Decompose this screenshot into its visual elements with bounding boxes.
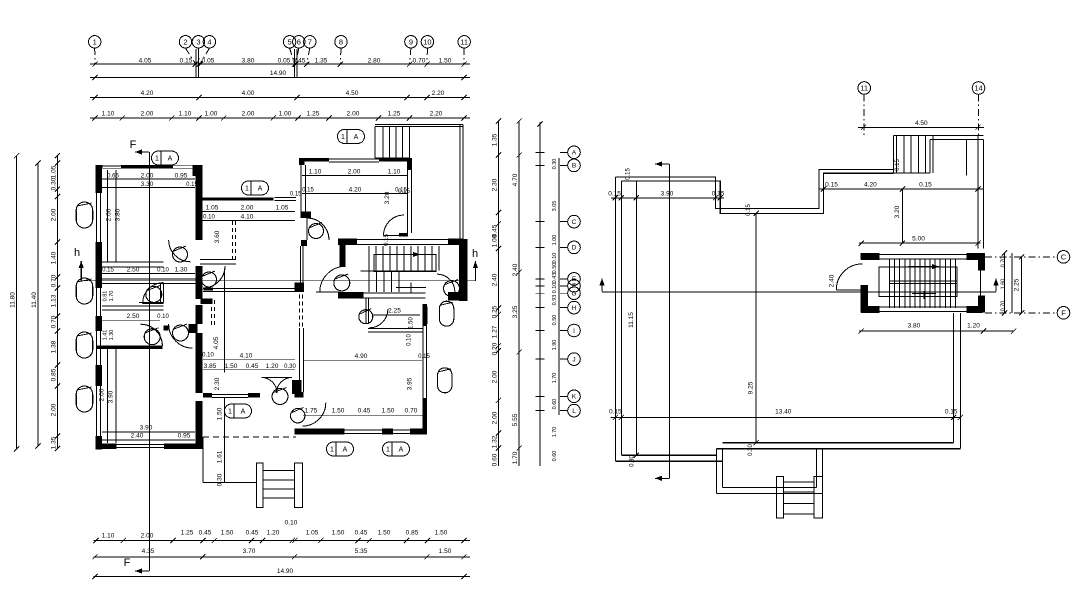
svg-text:14: 14 xyxy=(974,84,982,93)
svg-text:1.00: 1.00 xyxy=(279,111,292,118)
main stair cross mark xyxy=(396,287,426,289)
svg-text:4.05: 4.05 xyxy=(213,336,220,349)
window hatch in west wing top wall xyxy=(103,166,122,169)
roof bottom left edge xyxy=(615,460,722,462)
svg-text:2.00: 2.00 xyxy=(348,169,361,176)
svg-text:2.30: 2.30 xyxy=(491,178,498,191)
svg-text:0.15: 0.15 xyxy=(945,409,958,416)
svg-text:0.15: 0.15 xyxy=(608,190,621,197)
terrace edge right of stair xyxy=(1011,253,1013,313)
svg-text:0.45: 0.45 xyxy=(293,58,306,65)
svg-text:F: F xyxy=(130,139,137,151)
svg-text:0.93: 0.93 xyxy=(552,295,558,306)
left vertical detailed dim line xyxy=(56,156,58,449)
svg-text:0.10: 0.10 xyxy=(157,268,169,274)
svg-text:1.50: 1.50 xyxy=(382,408,395,415)
svg-text:1.25: 1.25 xyxy=(388,111,401,118)
svg-text:0.15: 0.15 xyxy=(302,188,314,194)
entry door arc xyxy=(302,403,326,427)
svg-text:3.80: 3.80 xyxy=(115,208,122,221)
svg-text:3.25: 3.25 xyxy=(512,305,519,318)
svg-text:0.30: 0.30 xyxy=(50,177,57,190)
stairwell top wall xyxy=(338,239,357,246)
east room east wall xyxy=(407,158,412,170)
svg-text:0.05: 0.05 xyxy=(278,58,291,65)
hall east wall black piece xyxy=(294,283,304,292)
svg-text:J: J xyxy=(572,356,575,363)
stair enclosure bottom wall xyxy=(861,306,879,313)
east room top wall xyxy=(299,158,329,162)
stadium tag bottom 2 xyxy=(383,442,410,456)
svg-text:0.30: 0.30 xyxy=(630,455,636,467)
bottom dimension row 3 (14.90) xyxy=(94,575,471,577)
svg-text:0.50: 0.50 xyxy=(552,263,558,274)
door arc bath1 xyxy=(143,283,164,304)
svg-text:2.00: 2.00 xyxy=(347,111,360,118)
svg-text:1.13: 1.13 xyxy=(50,294,57,307)
svg-text:1.70: 1.70 xyxy=(109,291,115,302)
stadium tag east room top xyxy=(338,130,365,144)
svg-text:3.90: 3.90 xyxy=(661,190,674,197)
west wing interior wall B corridor bottom xyxy=(102,278,196,280)
axis bubble C right xyxy=(985,256,1056,258)
west wing bottom bedroom top wall xyxy=(97,345,163,349)
west wing bottom wall xyxy=(95,444,116,450)
roof outline inner xyxy=(621,173,893,213)
axis bubble 7 xyxy=(304,36,316,48)
svg-text:A: A xyxy=(258,186,263,193)
dim 9.25 vertical xyxy=(755,213,757,442)
door arc west bedroom xyxy=(169,240,191,262)
svg-text:4.50: 4.50 xyxy=(915,120,928,127)
svg-text:1.50: 1.50 xyxy=(439,58,452,65)
svg-text:1.27: 1.27 xyxy=(491,325,498,338)
row axis dim line right plan xyxy=(539,122,541,466)
svg-text:4.20: 4.20 xyxy=(141,90,154,97)
svg-text:2.00: 2.00 xyxy=(141,111,154,118)
svg-text:0.15: 0.15 xyxy=(418,354,430,360)
axis double lines 2-3 xyxy=(195,49,197,78)
svg-text:1.00: 1.00 xyxy=(205,111,218,118)
svg-text:0.10: 0.10 xyxy=(552,253,558,264)
svg-text:h: h xyxy=(472,248,478,260)
svg-text:1: 1 xyxy=(93,38,97,47)
svg-text:2.40: 2.40 xyxy=(491,273,498,286)
svg-text:C: C xyxy=(1061,253,1067,262)
pill fixture right 1 xyxy=(439,301,453,326)
roof left wall xyxy=(614,177,616,461)
svg-text:0.45: 0.45 xyxy=(199,530,212,537)
svg-text:1.10: 1.10 xyxy=(102,111,115,118)
svg-text:1.60: 1.60 xyxy=(1001,279,1007,290)
section line F right plan xyxy=(669,164,671,478)
svg-text:2.40: 2.40 xyxy=(131,433,144,440)
svg-text:1.75: 1.75 xyxy=(305,408,318,415)
svg-text:2.20: 2.20 xyxy=(430,111,443,118)
svg-text:4.20: 4.20 xyxy=(864,182,877,189)
hall partition double line xyxy=(203,288,298,290)
svg-text:2.00: 2.00 xyxy=(50,403,57,416)
svg-text:11: 11 xyxy=(860,84,868,93)
svg-text:4.90: 4.90 xyxy=(355,353,368,360)
svg-text:0.15: 0.15 xyxy=(102,268,114,274)
top dimension row 1 (4.05 0.15 0.05 3.80 0.05 0.45 1.35 2.80 0.70 1.50) xyxy=(90,63,470,65)
stairwell left wall black piece xyxy=(339,245,345,267)
entry steps right rail xyxy=(294,463,302,508)
svg-text:1.05: 1.05 xyxy=(206,205,219,212)
svg-text:1.50: 1.50 xyxy=(221,530,234,537)
axis bubble 5 xyxy=(283,36,295,48)
svg-text:1.70: 1.70 xyxy=(512,451,519,464)
svg-text:1.50: 1.50 xyxy=(332,408,345,415)
svg-text:0.30: 0.30 xyxy=(217,473,224,486)
door arc stair-terrace xyxy=(437,274,455,292)
interior stair cross mark xyxy=(912,293,936,295)
east room bottom wall xyxy=(294,429,344,435)
svg-text:2.25: 2.25 xyxy=(388,308,401,315)
interior stair landing divider xyxy=(890,280,957,282)
svg-text:1.50: 1.50 xyxy=(217,407,224,420)
svg-text:0.70: 0.70 xyxy=(50,315,57,328)
svg-text:0.25: 0.25 xyxy=(491,305,498,318)
svg-text:1: 1 xyxy=(386,447,390,454)
svg-text:0.15: 0.15 xyxy=(609,409,622,416)
svg-text:F: F xyxy=(124,557,131,569)
right plan axis bubble 14 xyxy=(972,82,985,95)
left vertical dim line 11.40 xyxy=(37,163,39,446)
svg-text:3.90: 3.90 xyxy=(140,425,153,432)
svg-text:2.40: 2.40 xyxy=(512,263,519,276)
svg-text:0.10: 0.10 xyxy=(285,520,298,527)
hall wall stub right of stair door xyxy=(316,291,340,293)
wc room below stair xyxy=(359,310,373,324)
windows in west wing left wall xyxy=(96,193,98,242)
pill fixture left 4 xyxy=(76,386,93,412)
left vertical dim line 11.80 xyxy=(16,156,18,449)
interior stair treads xyxy=(889,259,891,308)
svg-text:5: 5 xyxy=(288,38,292,47)
svg-text:1.35: 1.35 xyxy=(491,133,498,146)
svg-text:0.30: 0.30 xyxy=(284,364,296,370)
svg-text:3.95: 3.95 xyxy=(407,377,414,390)
svg-text:3.30: 3.30 xyxy=(141,181,154,188)
top dimension row 3 (4.20 4.00 4.50 2.20) xyxy=(90,96,470,98)
dim 13.40 xyxy=(611,416,961,418)
svg-text:1.38: 1.38 xyxy=(50,340,57,353)
porch entry stair rails xyxy=(776,476,783,518)
wc fixture west bedroom xyxy=(173,247,188,262)
window center room top xyxy=(274,196,296,198)
bath1 walls xyxy=(139,301,164,303)
svg-text:2.80: 2.80 xyxy=(368,58,381,65)
stair landing inner line xyxy=(966,140,968,176)
svg-text:1.10: 1.10 xyxy=(102,533,115,540)
center column wall stub xyxy=(201,299,213,305)
svg-text:A: A xyxy=(572,150,577,157)
pill fixture right 2 xyxy=(438,368,452,393)
roof right wall xyxy=(959,313,961,449)
axis bubble 11 xyxy=(458,36,470,48)
svg-text:G: G xyxy=(571,291,576,298)
svg-text:0.10: 0.10 xyxy=(203,215,215,221)
svg-text:1.05: 1.05 xyxy=(306,530,319,537)
main stair upper boundary xyxy=(361,270,436,272)
svg-text:0.50: 0.50 xyxy=(552,315,558,326)
svg-text:0.15: 0.15 xyxy=(180,58,193,65)
interior stair arrow xyxy=(908,266,939,268)
exterior stair right plan outline xyxy=(893,135,983,137)
svg-text:4.35: 4.35 xyxy=(142,548,155,555)
terrace right edge xyxy=(459,124,461,239)
wc fixture hall-stairwell xyxy=(334,275,350,291)
svg-text:1.50: 1.50 xyxy=(439,548,452,555)
wc fixture stair-terrace xyxy=(444,281,460,297)
svg-text:2.30: 2.30 xyxy=(214,377,221,390)
svg-text:5.35: 5.35 xyxy=(355,548,368,555)
wc fixture entry xyxy=(291,409,305,423)
hall vertical dim 4.05 xyxy=(224,272,226,373)
door arc small room xyxy=(369,309,388,328)
svg-text:A: A xyxy=(399,447,404,454)
bottom bedroom dim texts xyxy=(107,349,109,443)
svg-text:3.90: 3.90 xyxy=(108,390,115,403)
small room 2.25 walls xyxy=(365,299,367,325)
svg-text:B: B xyxy=(572,163,576,170)
svg-text:4: 4 xyxy=(207,38,211,47)
svg-text:10: 10 xyxy=(423,38,431,47)
svg-text:1.30: 1.30 xyxy=(109,330,115,341)
svg-text:h: h xyxy=(74,247,80,259)
stair enclosure door arc xyxy=(836,264,862,290)
axis bubble 10 xyxy=(421,36,433,48)
window in west wing bottom wall xyxy=(116,444,164,446)
svg-text:1.10: 1.10 xyxy=(388,169,401,176)
svg-text:3.85: 3.85 xyxy=(204,363,217,370)
door arc hall-stairwell xyxy=(320,266,346,292)
svg-text:2.00: 2.00 xyxy=(106,208,113,221)
svg-text:1.30: 1.30 xyxy=(175,267,188,274)
svg-text:13.40: 13.40 xyxy=(775,409,792,416)
wc fixture hall door xyxy=(272,389,288,405)
svg-text:1.05: 1.05 xyxy=(50,165,57,178)
svg-text:1.50: 1.50 xyxy=(332,530,345,537)
svg-text:0.30: 0.30 xyxy=(552,159,558,170)
svg-text:1.50: 1.50 xyxy=(378,530,391,537)
wc fixture bath2 right xyxy=(173,325,189,341)
svg-text:H: H xyxy=(572,305,577,312)
stadium tag bottom 1 xyxy=(327,442,354,456)
svg-text:3.20: 3.20 xyxy=(384,191,391,204)
window hall bottom wall xyxy=(212,393,248,395)
wall stubs next to bath2 xyxy=(164,326,169,331)
svg-text:1.50: 1.50 xyxy=(225,363,238,370)
svg-text:A: A xyxy=(354,134,359,141)
svg-text:3.60: 3.60 xyxy=(214,230,221,243)
svg-text:1: 1 xyxy=(228,409,232,416)
svg-text:I: I xyxy=(573,328,575,335)
svg-text:F: F xyxy=(1061,309,1066,318)
svg-text:8: 8 xyxy=(339,38,343,47)
svg-text:0.10: 0.10 xyxy=(552,283,558,294)
svg-text:1.10: 1.10 xyxy=(309,169,322,176)
axis bubble F right xyxy=(985,312,1056,314)
svg-text:11.80: 11.80 xyxy=(10,292,17,308)
dim row 3.90 xyxy=(611,197,724,199)
axis bubble 3 xyxy=(192,36,204,48)
svg-text:0.45: 0.45 xyxy=(355,530,368,537)
wc fixture hall west xyxy=(202,272,217,287)
stairwell bottom wall xyxy=(338,292,363,299)
dim 4.50 xyxy=(858,126,984,128)
door arc hall west xyxy=(203,266,225,288)
svg-text:0.70: 0.70 xyxy=(1001,301,1007,312)
svg-text:2.00: 2.00 xyxy=(141,173,154,180)
stair enclosure right wall xyxy=(978,253,985,270)
roof bottom right edge xyxy=(717,448,961,450)
svg-text:0.70: 0.70 xyxy=(413,58,426,65)
east big room left wall xyxy=(299,328,301,392)
svg-text:5.00: 5.00 xyxy=(912,236,925,243)
section line h right plan xyxy=(602,291,996,293)
roof bottom step xyxy=(716,449,718,456)
svg-text:14.90: 14.90 xyxy=(277,568,294,575)
svg-text:5.55: 5.55 xyxy=(512,413,519,426)
main stair lower flight treads xyxy=(368,271,370,292)
small room bottom wall xyxy=(368,328,424,330)
svg-text:3.05: 3.05 xyxy=(552,201,558,212)
west wing east wall xyxy=(196,165,203,240)
svg-text:1.25: 1.25 xyxy=(181,530,194,537)
svg-text:0.81: 0.81 xyxy=(103,291,109,302)
window in west wing top wall xyxy=(173,165,192,168)
svg-text:1.20: 1.20 xyxy=(266,363,279,370)
roof outline outer xyxy=(615,169,893,208)
svg-text:1: 1 xyxy=(245,186,249,193)
svg-text:11.15: 11.15 xyxy=(628,312,635,328)
svg-text:0.70: 0.70 xyxy=(405,408,418,415)
axis bubble 9 xyxy=(405,36,417,48)
svg-text:0.15: 0.15 xyxy=(895,159,901,171)
svg-text:A: A xyxy=(343,447,348,454)
svg-text:0.95: 0.95 xyxy=(175,173,188,180)
dim 3.20 vertical xyxy=(901,189,903,243)
svg-text:D: D xyxy=(572,245,577,252)
svg-text:2.40: 2.40 xyxy=(829,274,836,287)
svg-text:0.85: 0.85 xyxy=(50,368,57,381)
west wing interior wall A corridor top xyxy=(102,261,164,263)
svg-text:0.95: 0.95 xyxy=(178,433,191,440)
svg-text:1.00: 1.00 xyxy=(552,235,558,246)
wc fixture center-east door xyxy=(309,224,324,239)
center room top wall xyxy=(196,197,274,200)
stair enclosure left wall xyxy=(860,253,868,260)
svg-text:4.70: 4.70 xyxy=(512,173,519,186)
svg-text:2.00: 2.00 xyxy=(141,533,154,540)
svg-text:1.90: 1.90 xyxy=(552,340,558,351)
section line F vertical xyxy=(148,152,150,571)
svg-text:2.50: 2.50 xyxy=(127,267,140,274)
svg-text:1.40: 1.40 xyxy=(50,251,57,264)
dim line 0.70-1.60-0.70 vertical xyxy=(1004,253,1006,313)
svg-text:0.20: 0.20 xyxy=(491,342,498,355)
hall east wall stub xyxy=(292,380,302,394)
svg-text:L: L xyxy=(572,408,576,415)
axis bubble 8 xyxy=(335,36,347,48)
svg-text:7: 7 xyxy=(308,38,312,47)
svg-text:0.15: 0.15 xyxy=(712,190,725,197)
wc fixture bath1 xyxy=(146,286,162,302)
svg-text:2.00: 2.00 xyxy=(242,111,255,118)
row axis text line right plan xyxy=(558,158,560,415)
pill fixture left 2 xyxy=(76,278,93,304)
svg-text:0.70: 0.70 xyxy=(1001,257,1007,268)
main stair arrow xyxy=(395,253,420,255)
entry steps treads xyxy=(263,470,294,472)
axis bubble 1 xyxy=(89,36,101,48)
svg-text:3.70: 3.70 xyxy=(243,548,256,555)
bottom dimension row 1 xyxy=(94,540,471,542)
east room right wall xyxy=(423,304,428,326)
hall east wall upper xyxy=(299,246,301,283)
svg-text:0.15: 0.15 xyxy=(746,204,752,216)
hall east dashed lines xyxy=(299,295,301,329)
west wing top wall xyxy=(95,165,196,169)
terrace top edge xyxy=(375,123,463,125)
corner stub below door xyxy=(301,240,307,246)
svg-text:11.40: 11.40 xyxy=(31,292,38,308)
dim 5.00 xyxy=(859,242,980,244)
svg-text:1: 1 xyxy=(341,134,345,141)
porch outline xyxy=(202,437,204,483)
pill fixture left 3 xyxy=(76,332,93,358)
svg-text:0.45: 0.45 xyxy=(246,363,259,370)
top dimension row 4 (1.10 2.00 1.10 1.00 2.00 1.00 1.25 2.00 1.25 2.20) xyxy=(90,117,470,119)
svg-text:0.60: 0.60 xyxy=(552,399,558,410)
svg-text:4.50: 4.50 xyxy=(346,90,359,97)
svg-text:4.05: 4.05 xyxy=(139,58,152,65)
porch entry stair treads xyxy=(783,481,814,483)
svg-text:K: K xyxy=(572,394,577,401)
svg-text:0.60: 0.60 xyxy=(491,453,498,466)
svg-text:A: A xyxy=(168,156,173,163)
porch vertical dim xyxy=(224,397,226,483)
axis bubble 2 xyxy=(179,36,191,48)
svg-text:A: A xyxy=(241,409,246,416)
svg-text:1.50: 1.50 xyxy=(408,317,414,329)
svg-text:0.15: 0.15 xyxy=(626,168,632,180)
svg-text:3.80: 3.80 xyxy=(908,323,921,330)
svg-text:3.80: 3.80 xyxy=(242,58,255,65)
svg-text:1: 1 xyxy=(155,156,159,163)
svg-text:2.00: 2.00 xyxy=(99,388,106,401)
svg-text:0.45: 0.45 xyxy=(246,530,259,537)
west wing interior wall C xyxy=(102,305,164,307)
window east room top xyxy=(329,158,379,160)
svg-text:9.25: 9.25 xyxy=(748,381,755,394)
stair enclosure right door leaf xyxy=(980,271,982,296)
section line h-h horizontal xyxy=(83,280,476,282)
stadium tag hall xyxy=(225,404,252,418)
dim row 3.80 1.20 xyxy=(859,330,1014,332)
main stair inner box xyxy=(374,255,436,272)
porch dashed line xyxy=(203,436,296,438)
axis bubble 6 xyxy=(293,36,305,48)
svg-text:9: 9 xyxy=(409,38,413,47)
axis bubble 4 xyxy=(203,36,215,48)
bottom dimension row 2 (4.35 3.70 5.35 1.50) xyxy=(94,556,471,558)
svg-text:1.41: 1.41 xyxy=(103,330,109,341)
svg-text:0.10: 0.10 xyxy=(407,334,413,346)
